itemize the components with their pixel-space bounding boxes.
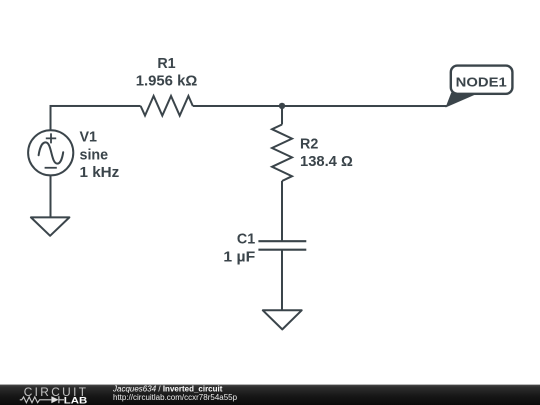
svg-text:sine: sine: [80, 147, 109, 163]
node flag NODE1 box: [451, 66, 513, 94]
svg-text:138.4 Ω: 138.4 Ω: [300, 154, 353, 170]
svg-text:1 µF: 1 µF: [223, 250, 255, 266]
svg-text:1 kHz: 1 kHz: [80, 165, 120, 181]
resistor R2: [272, 125, 292, 182]
svg-text:NODE1: NODE1: [456, 74, 508, 89]
svg-text:1.956 kΩ: 1.956 kΩ: [136, 73, 198, 89]
svg-text:R1: R1: [157, 56, 175, 72]
junction node: [279, 103, 285, 109]
voltage source V1: [28, 130, 73, 175]
svg-text:http://circuitlab.com/ccxr78r5: http://circuitlab.com/ccxr78r54a55p: [113, 393, 238, 402]
svg-text:LAB: LAB: [64, 395, 88, 405]
resistor R1: [141, 96, 193, 116]
capacitor C1: [258, 241, 306, 250]
wire V1 to ground: [49, 175, 51, 217]
svg-text:C1: C1: [237, 232, 255, 248]
wire R2 to C1: [281, 181, 283, 241]
wire junction to R2: [281, 106, 283, 125]
wire from V1 top to R1: [51, 106, 141, 130]
wire C1 to ground: [281, 250, 283, 311]
svg-text:V1: V1: [80, 129, 98, 145]
node flag NODE1 tail: [446, 93, 477, 107]
footer bar: [0, 385, 540, 405]
ground under C1: [263, 310, 302, 329]
logo diode: [51, 396, 58, 403]
ground under V1: [31, 217, 70, 235]
wire from R1 to NODE1: [193, 105, 447, 107]
svg-text:R2: R2: [300, 136, 318, 152]
logo resistor squiggle: [20, 397, 52, 403]
